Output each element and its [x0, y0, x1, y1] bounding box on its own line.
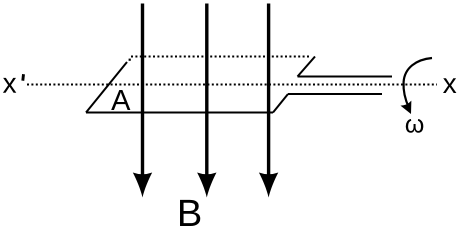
label A (coil corner) [111, 90, 130, 110]
coil left edge (solid diagonal) [86, 62, 127, 113]
label x' (left axis) [3, 78, 16, 93]
upper lead wire [298, 76, 393, 78]
label B (field) [180, 200, 200, 226]
field arrow B1 head [133, 173, 152, 198]
field arrow B2 shaft [205, 4, 208, 177]
axis line x'-x (dotted) [27, 84, 437, 86]
rotation arrow head [400, 101, 416, 117]
coil top-right corner diagonal (wire) [298, 57, 316, 77]
lower lead wire [288, 93, 382, 95]
coil left edge dotted tip [129, 59, 131, 61]
field arrow B3 shaft [267, 4, 270, 177]
label x (right axis) [443, 78, 456, 93]
rotation arrow curve [404, 58, 432, 108]
lower-right corner diagonal (wire) [273, 94, 288, 113]
label omega (angular velocity) [406, 119, 423, 133]
field arrow B1 shaft [141, 4, 144, 177]
label prime mark [21, 74, 25, 81]
field arrow B2 head [197, 173, 216, 198]
field arrow B3 head [259, 173, 278, 198]
coil top back edge (dotted) [131, 56, 310, 58]
coil bottom front edge (wire) [86, 112, 273, 114]
